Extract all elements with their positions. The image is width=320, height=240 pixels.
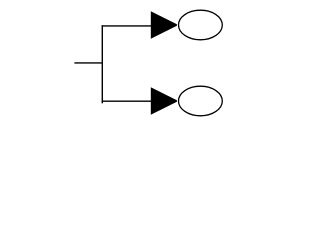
buffer triangle bottom [151, 87, 177, 114]
wire input stub [74, 62, 103, 64]
wire bottom branch [102, 100, 152, 102]
node ellipse bottom [179, 86, 223, 116]
wire top branch [102, 25, 152, 27]
buffer triangle top [151, 11, 177, 38]
wire vertical branch [101, 25, 103, 103]
node ellipse top [179, 10, 223, 40]
